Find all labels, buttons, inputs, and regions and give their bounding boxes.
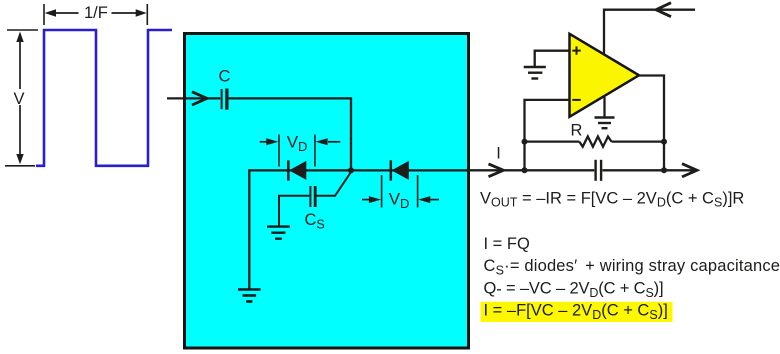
wire input to capacitor C bbox=[167, 97, 220, 99]
arrow output chevron bbox=[682, 164, 697, 177]
node dot feedback left top bbox=[522, 139, 528, 145]
svg-text:I: I bbox=[496, 145, 501, 163]
square wave input waveform bbox=[36, 30, 172, 166]
diode D2 bbox=[391, 160, 409, 180]
dimension VD (D1) ticks bbox=[279, 135, 315, 167]
ground (box lower) bbox=[238, 290, 261, 302]
node dot feedback right bottom bbox=[661, 167, 667, 173]
svg-text:1/F: 1/F bbox=[84, 4, 108, 22]
op-amp U1 bbox=[570, 34, 640, 117]
svg-text:Q- = –VC – 2VD(C + CS)]: Q- = –VC – 2VD(C + CS)] bbox=[484, 279, 664, 299]
capacitor CS bbox=[310, 186, 315, 207]
capacitor C bbox=[222, 89, 227, 110]
wire diagonal junction to CS bbox=[316, 172, 351, 196]
svg-text:VOUT = –IR = F[VC – 2VD(C + CS: VOUT = –IR = F[VC – 2VD(C + CS)]R bbox=[480, 189, 744, 209]
svg-text:V: V bbox=[14, 90, 25, 108]
svg-text:C: C bbox=[219, 67, 231, 85]
resistor R bbox=[579, 137, 611, 147]
dimension V reference lines bbox=[5, 30, 38, 166]
ground (op-amp) bbox=[595, 118, 615, 129]
arrow supply chevron bbox=[656, 3, 671, 17]
wire diode row bbox=[249, 169, 470, 171]
wire feedback left bbox=[525, 140, 580, 142]
svg-text:CS·= diodes′ + wiring stray ca: CS·= diodes′ + wiring stray capacitance bbox=[484, 257, 780, 277]
dimension VD (D1) arrows bbox=[260, 138, 341, 145]
svg-text:I = –F[VC – 2VD(C + CS)]: I = –F[VC – 2VD(C + CS)] bbox=[484, 302, 668, 322]
svg-text:R: R bbox=[571, 122, 583, 140]
wire left branch vertical bbox=[248, 169, 250, 289]
dimension VD (D2) arrows bbox=[362, 196, 439, 203]
wire output to arrow bbox=[603, 169, 697, 171]
wire op-amp ground bbox=[603, 97, 605, 117]
dimension 1/F ticks bbox=[44, 4, 147, 25]
label minus input bbox=[572, 99, 580, 101]
node dot feedback left bottom bbox=[522, 167, 528, 173]
wire CS to ground bbox=[279, 196, 309, 226]
wire supply bbox=[604, 10, 695, 54]
diode D1 bbox=[288, 160, 306, 180]
node dot feedback right top bbox=[661, 139, 667, 145]
svg-text:I = FQ: I = FQ bbox=[484, 235, 530, 253]
arrow I chevron bbox=[489, 164, 504, 177]
dimension V arrows bbox=[16, 32, 23, 165]
capacitor feedback bbox=[596, 160, 602, 181]
junction node dot bbox=[348, 167, 354, 173]
wire plus input bbox=[535, 51, 570, 66]
wire feedback right bbox=[612, 140, 665, 142]
block box (cyan) bbox=[185, 34, 469, 349]
wire box output bbox=[470, 169, 594, 171]
wire minus input bbox=[525, 100, 571, 170]
ground (plus input) bbox=[524, 67, 546, 79]
label plus input bbox=[572, 46, 580, 54]
dimension VD (D2) ticks bbox=[382, 175, 418, 207]
dimension 1/F arrows bbox=[45, 9, 147, 16]
ground (CS) bbox=[267, 227, 290, 239]
arrow input current chevron bbox=[192, 92, 207, 105]
wire C to corner bbox=[229, 98, 351, 168]
wire output bbox=[639, 76, 664, 171]
highlight rect bbox=[481, 302, 673, 322]
